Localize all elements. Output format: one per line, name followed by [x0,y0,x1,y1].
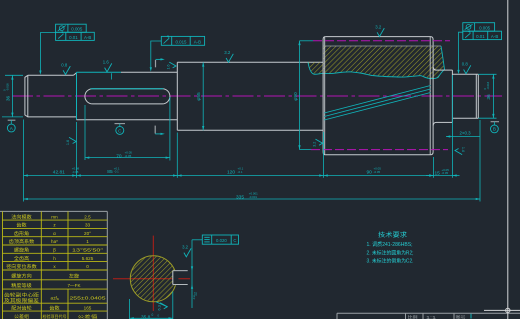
svg-text:-0.05: -0.05 [374,170,381,174]
keyway depth dim line [130,317,173,319]
keyway depth dim extensions [129,299,131,319]
svg-text:径向变位系数: 径向变位系数 [6,263,37,270]
section view red centerline horizontal [113,278,190,280]
svg-text:3.2: 3.2 [313,142,317,147]
right journal top edge [452,73,478,75]
svg-text:配对齿轮: 配对齿轮 [11,304,32,311]
svg-text:-0.05: -0.05 [442,171,449,175]
section S2 bottom edge [77,119,178,121]
roughness 3.2 near gear left bottom [313,139,323,147]
roughness 3.2 on gear tip [375,24,384,36]
roughness on S3 step face rotated [166,62,176,69]
svg-text:a±fₐ: a±fₐ [50,296,58,301]
gear tip bottom edge [325,154,430,156]
svg-text:B: B [493,127,496,132]
keyway side bottom [173,284,188,286]
svg-text:255±0.0405: 255±0.0405 [70,296,107,301]
svg-text:β: β [53,248,56,253]
dimension 36 right: extension lines [478,73,496,75]
svg-text:A-B: A-B [84,35,91,40]
gear right face [432,40,434,152]
keyway length dim 70 [84,105,86,160]
svg-text:齿数: 齿数 [16,222,27,229]
gear parameter table outer border [0,210,107,212]
svg-text:1.6: 1.6 [461,147,465,152]
svg-text:85: 85 [107,169,113,175]
svg-text:齿顶高系数: 齿顶高系数 [9,238,35,245]
svg-text:φ55: φ55 [196,92,202,101]
gear tip top edge [325,36,430,38]
gear pitch line bottom [300,149,312,151]
dim 15 outside arrows [426,175,433,177]
svg-text:90: 90 [367,169,373,175]
svg-text:36: 36 [5,96,11,102]
svg-text:-0.016: -0.016 [486,81,490,89]
svg-text:12: 12 [194,292,198,296]
svg-text:335: 335 [236,194,244,200]
svg-text:0.01: 0.01 [69,35,78,40]
dimension phi90 pitch: dim line [299,41,301,150]
svg-text:公差组: 公差组 [14,313,29,319]
tolerance frame top-right box1 cylindricity 0.005 [463,23,495,32]
svg-text:1.6: 1.6 [66,140,70,145]
keyway side top [173,270,188,272]
table column dividers [40,211,42,319]
symmetry tolerance frame 0.020 C [202,235,238,244]
svg-text:20°: 20° [84,231,91,236]
roughness 1.6 rotated at relief groove [455,147,465,155]
keyway flat [172,271,174,285]
svg-text:33: 33 [85,223,91,228]
helix direction line 2 [324,89,430,117]
svg-text:技术要求: 技术要求 [378,231,407,239]
svg-text:13°55′50″: 13°55′50″ [72,248,104,253]
crosshair cursor horizontal [484,309,520,311]
svg-text:0: 0 [152,313,154,317]
right journal chamfer line [475,74,477,118]
svg-text:-0.05: -0.05 [125,154,132,158]
svg-text:齿形角: 齿形角 [14,230,30,237]
roughness 3.2 at keyway side [182,245,191,257]
dimension 36 left: extension lines [5,74,23,76]
section cut mark lower [154,126,156,134]
svg-text:ha*: ha* [51,239,58,244]
svg-text:35.8: 35.8 [141,315,151,319]
svg-text:-0.1: -0.1 [238,170,243,174]
svg-text:0.005: 0.005 [479,25,491,30]
total dimension 335 [24,198,481,200]
shoulder/journal step face [451,70,453,122]
svg-text:42.81: 42.81 [53,169,65,175]
gear left chamfer inner line [324,37,326,155]
svg-text:2.5: 2.5 [84,214,91,219]
gear right chamfer inner line [429,37,431,155]
datum B symbol [491,121,499,123]
svg-text:5.625: 5.625 [82,256,94,261]
shoulder bottom edge [437,121,453,123]
svg-text:-0.2: -0.2 [192,295,196,300]
gear hatch broken-out section [308,46,445,79]
title block top edge [337,312,520,314]
svg-text:α: α [53,231,56,236]
datum C symbol [115,123,126,125]
svg-text:A-B: A-B [194,39,201,44]
small tick below S2 top edge [110,73,112,79]
svg-text:1. 调质241-286HBS;: 1. 调质241-286HBS; [367,240,413,248]
section S2 top edge cyan part [77,71,122,73]
svg-text:φ90: φ90 [293,92,299,101]
section view red centerline vertical [152,236,154,311]
section S1 chamfer line [27,75,29,117]
break line wavy boundary [308,46,445,79]
svg-text:165: 165 [84,305,92,310]
section S3 bottom edge [177,129,323,131]
datum A symbol [8,119,16,121]
svg-text:-0.08: -0.08 [72,170,79,174]
svg-text:C: C [233,238,236,243]
svg-text:1.6: 1.6 [166,64,170,69]
tolerance frame top-left leader [40,33,55,72]
svg-text:全齿高: 全齿高 [14,255,30,262]
svg-text:2. 未标注的圆角为R2;: 2. 未标注的圆角为R2; [367,248,414,256]
svg-text:0.015: 0.015 [176,39,188,44]
gear root line in section [323,45,441,47]
roughness 1.6 rotated on S2 shoulder face [66,137,76,145]
keyway width dim line and leader [191,240,193,308]
svg-text:70: 70 [116,153,122,159]
svg-text:比例: 比例 [408,314,419,319]
section S2 left face [76,72,78,120]
svg-text:-0.001: -0.001 [249,195,258,199]
svg-text:0.8: 0.8 [462,62,469,67]
svg-text:1:1: 1:1 [426,315,437,319]
helix direction line 3 [324,93,430,121]
svg-text:螺旋角: 螺旋角 [14,247,30,254]
svg-text:法向模数: 法向模数 [11,213,32,220]
main shaft centerline [12,95,502,97]
svg-text:6.3: 6.3 [157,305,161,310]
svg-text:3.2: 3.2 [182,245,189,250]
svg-text:0: 0 [86,264,89,269]
svg-text:精度等级: 精度等级 [11,282,32,289]
svg-text:螺旋方向: 螺旋方向 [11,273,32,280]
section S2 top edge white part [121,71,177,73]
svg-text:3.2: 3.2 [224,50,231,55]
svg-text:图号: 图号 [456,315,467,319]
title block verticals [336,313,338,319]
roughness 1.6 on keyway section [103,60,112,72]
svg-text:15: 15 [435,171,441,177]
gear left face [322,40,324,152]
roughness 0.8 on right journal [462,62,471,74]
roughness 3.2 on section S3 [224,50,233,62]
dimension 36 left: dimension line [11,75,13,117]
tolerance frame top-left box2 runout 0.01 A-B [56,32,95,40]
gear pitch line top [300,40,314,42]
right journal bottom edge [452,117,478,119]
chain dimension extension lines [23,120,25,202]
svg-text:左旋: 左旋 [69,273,80,280]
svg-text:公差值: 公差值 [78,313,98,319]
section cut mark upper [155,60,157,67]
section S3 step face [176,62,178,130]
svg-text:36: 36 [486,94,492,100]
helix direction line 1 [324,86,430,114]
keyway slot top edge cyan [91,88,164,90]
roughness 6.3 with leader below circle [156,302,167,307]
svg-text:0.8: 0.8 [61,62,68,67]
right journal end face [477,74,479,118]
svg-text:A-B: A-B [491,34,498,39]
svg-text:0.005: 0.005 [71,27,83,32]
svg-text:齿数: 齿数 [49,304,60,311]
section S1 left journal outline [25,75,77,117]
svg-text:7—FK: 7—FK [67,283,81,288]
tolerance frame top-middle leader [151,41,162,68]
chain dimension line y=175.5 [24,175,453,177]
dimension phi55: dim line [202,62,204,130]
svg-text:1: 1 [86,239,89,244]
shoulder after gear top edge [437,69,453,71]
tolerance frame top-right leader [459,32,463,71]
svg-text:3.2: 3.2 [375,24,382,29]
tolerance frame top-right box2 runout 0.01 A-B [463,31,502,39]
crosshair cursor vertical [507,0,509,319]
svg-text:h: h [53,256,56,261]
roughness 0.8 on left journal [61,62,70,74]
svg-text:2×0.3: 2×0.3 [460,131,472,136]
section S3 top edge [177,61,323,63]
svg-text:及其极限偏差: 及其极限偏差 [4,297,40,304]
title block cyan tick [470,314,472,319]
keyway notch cutout [173,270,179,285]
keyway slot rounded outline [85,89,170,104]
svg-text:3. 未标注的倒角为C2.: 3. 未标注的倒角为C2. [367,257,414,265]
table horizontal lines [3,219,108,221]
tolerance frame top-middle runout 0.015 A-B [161,36,204,45]
crosshair pickbox [506,308,510,312]
svg-text:0.020: 0.020 [216,238,227,243]
svg-text:1.6: 1.6 [103,60,110,65]
dimension 36 right: dim line [492,74,494,118]
svg-text:-0.1: -0.1 [114,170,119,174]
section circle with hatch [130,256,176,302]
svg-text:mn: mn [51,214,58,219]
tolerance frame top-left box1 cylindricity 0.005 [56,24,87,32]
svg-text:-0.016: -0.016 [6,83,10,91]
svg-text:0.01: 0.01 [476,34,485,39]
svg-text:120: 120 [227,169,235,175]
svg-text:检验项目代号: 检验项目代号 [43,313,67,319]
